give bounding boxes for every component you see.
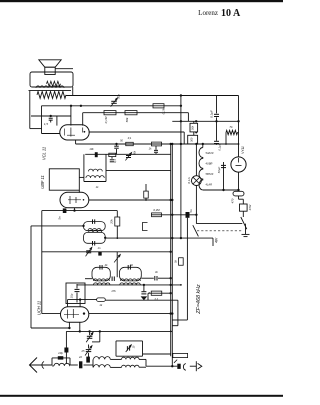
svg-text:4702: 4702 [248,204,252,210]
svg-text:5n: 5n [58,216,62,220]
svg-text:0,3M: 0,3M [153,208,160,212]
svg-text:5n: 5n [189,209,193,213]
svg-text:0,1M: 0,1M [162,107,166,114]
svg-text:UCH 11: UCH 11 [37,301,42,315]
svg-text:VCL 11: VCL 11 [42,147,47,160]
svg-text:4W: 4W [215,237,219,243]
svg-text:0,1M: 0,1M [104,116,108,123]
svg-text:50p: 50p [117,94,121,99]
svg-text:470: 470 [231,198,235,203]
svg-text:5BT20: 5BT20 [206,172,214,176]
svg-text:4UBR: 4UBR [206,162,213,166]
svg-text:10 A: 10 A [221,8,241,19]
svg-text:50k: 50k [125,117,129,122]
svg-text:4LAR: 4LAR [206,183,213,187]
svg-text:2k: 2k [78,355,83,359]
svg-text:10p: 10p [58,351,63,355]
svg-text:ZF=468 kHz: ZF=468 kHz [196,284,202,315]
svg-text:5AK20: 5AK20 [206,151,214,155]
svg-text:300: 300 [190,137,194,142]
svg-text:VY11: VY11 [241,146,245,154]
svg-text:0,1: 0,1 [128,136,132,140]
svg-text:30k: 30k [191,125,195,130]
svg-text:17k: 17k [111,289,116,293]
svg-text:50µF: 50µF [217,166,221,173]
svg-text:UBF 11: UBF 11 [40,175,45,189]
svg-text:Lorenz: Lorenz [198,9,218,17]
svg-text:10k: 10k [89,147,94,151]
svg-text:2k: 2k [104,263,108,267]
svg-text:0,1: 0,1 [113,159,117,163]
svg-text:1,5: 1,5 [44,122,49,126]
svg-text:2,2: 2,2 [153,297,158,301]
svg-text:0,1µF: 0,1µF [210,110,214,118]
svg-text:20k: 20k [110,219,114,225]
svg-text:10µ: 10µ [70,293,74,298]
svg-text:7k: 7k [229,125,233,129]
svg-text:0,1A: 0,1A [187,177,191,183]
svg-text:25: 25 [81,349,85,353]
